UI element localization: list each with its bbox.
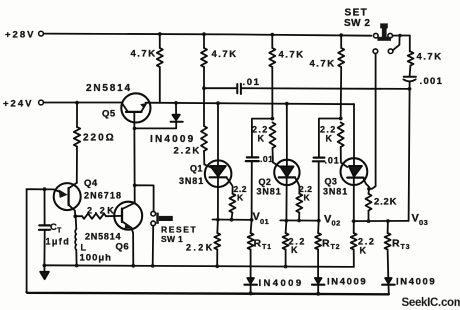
resistor R 2.2K (V01 to ground) — [216, 220, 219, 233]
svg-text:K: K — [291, 245, 298, 255]
resistor R 4.7K #1 — [159, 34, 161, 48]
node +28V terminal — [39, 31, 44, 36]
node +24V terminal — [39, 100, 44, 105]
svg-text:SW 2: SW 2 — [344, 18, 370, 29]
capacitor C .01 #1 — [236, 84, 238, 93]
wire V03 node line — [352, 220, 408, 222]
thyristor Q2 3N81 — [286, 104, 288, 167]
svg-text:4.7K: 4.7K — [131, 49, 157, 60]
svg-text:01: 01 — [260, 217, 269, 226]
wire Q5 base line down — [133, 112, 135, 203]
svg-text:Q1: Q1 — [190, 164, 203, 174]
svg-text:Q5: Q5 — [102, 109, 116, 120]
svg-text:.01: .01 — [260, 154, 273, 164]
svg-text:4.7K: 4.7K — [212, 49, 238, 60]
svg-text:2.2K: 2.2K — [374, 197, 397, 208]
wire +24V to Q5 — [44, 102, 122, 104]
svg-text:2N6718: 2N6718 — [84, 191, 122, 201]
svg-text:.001: .001 — [420, 76, 444, 87]
svg-text:R: R — [254, 238, 262, 250]
resistor RT3 — [387, 221, 389, 233]
resistor R 4.7K #3 — [271, 35, 273, 48]
wire X3 bracket and capacitor .01 #3 — [339, 117, 343, 121]
wire X2 bracket and capacitor .01 #2 — [271, 117, 275, 121]
capacitor C .001 — [404, 76, 416, 78]
svg-text:IN4009: IN4009 — [327, 277, 367, 288]
svg-text:02: 02 — [332, 219, 341, 228]
resistor R 4.7K #5 — [409, 36, 411, 52]
svg-text:3N81: 3N81 — [257, 187, 282, 197]
svg-text:2.2K: 2.2K — [174, 146, 202, 157]
resistor R 2.2K (Q2 gate feed) — [270, 123, 276, 149]
svg-text:Q2: Q2 — [259, 177, 272, 187]
svg-text:IN4009: IN4009 — [259, 278, 304, 289]
svg-text:RESET: RESET — [161, 225, 197, 235]
resistor R 2.2K (V02 to ground) — [285, 221, 288, 233]
svg-text:2.2K: 2.2K — [87, 206, 116, 216]
wire left vertical down — [26, 189, 28, 292]
wire +28V rail — [44, 34, 372, 36]
svg-text:T1: T1 — [262, 244, 272, 251]
transistor Q4 2N6718 — [54, 183, 81, 210]
svg-text:Q6: Q6 — [116, 242, 130, 253]
diode 1N4009 (Q5) — [175, 103, 177, 115]
wire V01 node line — [213, 219, 252, 221]
wire bottom rail — [27, 292, 389, 294]
wire inner ground line — [44, 265, 353, 267]
svg-text:.01: .01 — [325, 156, 340, 166]
switch SW1 RESET pushbutton — [135, 185, 154, 211]
svg-text:2.2K: 2.2K — [186, 243, 215, 253]
svg-text:K: K — [237, 193, 244, 203]
svg-text:1μfd: 1μfd — [46, 237, 71, 247]
resistor R 2.2K (Q4-Q6 horizontal) — [75, 215, 82, 217]
thyristor Q3 3N81 — [353, 104, 355, 166]
transistor Q5 2N5814 — [121, 93, 150, 122]
svg-text:Q4: Q4 — [84, 178, 98, 189]
svg-text:220Ω: 220Ω — [83, 133, 116, 144]
wire Q5 emitter bus y103 — [146, 103, 355, 105]
svg-text:SeekIC.com: SeekIC.com — [402, 297, 460, 309]
diode 1N4009 #2 — [315, 278, 322, 284]
svg-text:T3: T3 — [401, 244, 411, 251]
svg-text:.01: .01 — [243, 77, 261, 88]
svg-text:+24V: +24V — [3, 99, 33, 110]
svg-text:100μh: 100μh — [80, 253, 112, 264]
ground arrow — [43, 265, 45, 272]
svg-text:T2: T2 — [331, 244, 341, 251]
svg-text:IN4009: IN4009 — [150, 134, 195, 145]
resistor R 2.2K (V03 to ground) — [353, 221, 355, 233]
resistor R 4.7K #2 — [203, 34, 205, 48]
svg-text:2N5814: 2N5814 — [85, 232, 121, 242]
svg-text:2N5814: 2N5814 — [86, 83, 132, 94]
wire SW2 right contacts to corner — [393, 35, 410, 37]
svg-text:03: 03 — [419, 218, 428, 227]
inductor L 100uh — [75, 216, 78, 229]
svg-text:K: K — [360, 246, 367, 256]
resistor R 2.2K (Q1 gate feed) — [203, 88, 205, 126]
wire SW2 lower-left pole down to Q3 gate — [369, 54, 375, 189]
wire Q4 emitter to left rail — [27, 188, 54, 190]
capacitor CT 1ufd — [44, 189, 46, 225]
svg-text:4.7K: 4.7K — [310, 59, 336, 70]
resistor R 220 ohm — [76, 103, 78, 127]
resistor RT2 — [317, 221, 320, 233]
wire .01 coupling bus y88 — [204, 87, 237, 89]
diode 1N4009 #3 — [385, 278, 392, 284]
svg-text:SW 1: SW 1 — [161, 234, 183, 244]
svg-text:Q3: Q3 — [325, 177, 338, 187]
thyristor Q1 3N81 — [217, 103, 219, 166]
wire right bus down to V03 — [409, 89, 410, 221]
svg-text:R: R — [322, 238, 330, 250]
svg-text:SET: SET — [345, 8, 369, 19]
resistor R 4.7K #4 — [340, 35, 342, 48]
resistor R 2.2K (Q2 cathode gate) — [296, 194, 302, 213]
resistor R 2.2K (Q3 cathode gate) — [368, 189, 371, 194]
svg-text:+28V: +28V — [5, 30, 35, 41]
svg-text:C: C — [50, 222, 57, 233]
svg-text:IN4009: IN4009 — [396, 277, 436, 288]
svg-text:3N81: 3N81 — [323, 187, 348, 197]
svg-text:T: T — [57, 228, 62, 235]
svg-text:K: K — [326, 134, 333, 144]
transistor Q6 2N5814 — [114, 202, 142, 230]
resistor RT1 — [251, 220, 252, 233]
node rail junction dots — [158, 32, 343, 37]
svg-text:K: K — [304, 193, 311, 203]
wire V02 node line — [280, 219, 318, 221]
resistor R 2.2K (Q1 cathode gate) — [229, 194, 235, 213]
svg-text:4.7K: 4.7K — [279, 50, 305, 61]
svg-text:K: K — [258, 134, 265, 144]
svg-text:R: R — [392, 238, 400, 250]
svg-text:3N81: 3N81 — [179, 176, 204, 186]
diode 1N4009 #1 — [247, 278, 254, 284]
svg-text:L: L — [81, 243, 87, 253]
resistor R 2.2K (Q3 gate feed) — [338, 123, 344, 148]
svg-text:4.7K: 4.7K — [417, 52, 443, 63]
node Q4 base node dot — [73, 214, 77, 218]
